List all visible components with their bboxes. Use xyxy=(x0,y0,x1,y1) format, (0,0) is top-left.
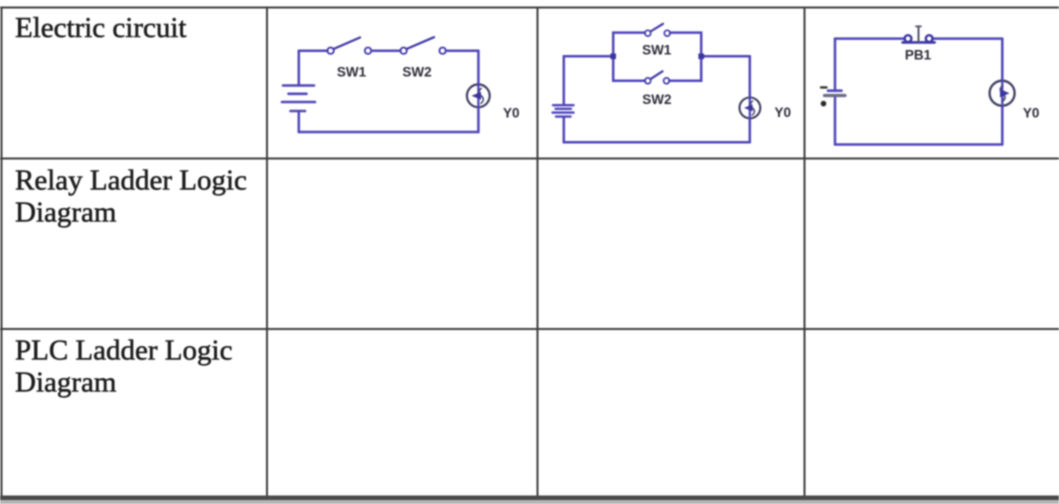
svg-text:Relay Ladder Logic: Relay Ladder Logic xyxy=(15,165,247,197)
wire right vertical c2 xyxy=(749,56,752,97)
svg-text:Y0: Y0 xyxy=(503,106,520,121)
svg-text:SW2: SW2 xyxy=(402,65,431,80)
svg-text:Y0: Y0 xyxy=(1023,105,1040,120)
wire bottom c1 xyxy=(299,131,479,134)
svg-text:SW1: SW1 xyxy=(642,43,672,58)
parallel branch left riser xyxy=(613,33,645,81)
wire SW2 to corner c1 xyxy=(446,49,479,52)
svg-text:Electric circuit: Electric circuit xyxy=(15,12,186,44)
wire top left c1 xyxy=(299,49,328,52)
wire main right c2 xyxy=(701,55,750,58)
wire battery to bottom c2 xyxy=(563,118,566,142)
pushbutton PB1 xyxy=(903,26,935,42)
svg-text:PB1: PB1 xyxy=(905,47,932,62)
wire right vertical c1 xyxy=(477,51,480,85)
lamp Y0 c2 xyxy=(740,98,761,119)
wire main left c2 xyxy=(564,55,613,58)
battery plus dot xyxy=(821,101,827,107)
wire top right c3 xyxy=(932,37,1002,40)
switch SW1 xyxy=(327,38,371,54)
svg-text:SW2: SW2 xyxy=(642,92,671,107)
parallel branch right riser xyxy=(669,33,701,81)
wire top left c3 xyxy=(835,37,905,40)
battery BT1 xyxy=(282,86,315,112)
battery minus mark xyxy=(821,86,827,88)
battery BT3 xyxy=(825,91,846,96)
node junction left xyxy=(610,54,616,60)
wire left vertical c3 xyxy=(834,39,837,90)
wire left vertical c1 xyxy=(298,51,301,85)
lamp Y0 c3 xyxy=(990,81,1015,106)
wire between SW1 SW2 xyxy=(371,49,400,52)
wire battery to bottom c1 xyxy=(298,113,301,133)
switch SW1 c2 xyxy=(645,24,670,36)
battery BT2 xyxy=(553,105,574,116)
wire right vertical c3 xyxy=(1001,39,1004,81)
wire left vertical c2 xyxy=(563,56,566,104)
svg-text:Diagram: Diagram xyxy=(15,197,117,229)
wire bottom c2 xyxy=(564,141,750,144)
svg-text:SW1: SW1 xyxy=(337,65,367,80)
svg-text:Y0: Y0 xyxy=(775,105,792,120)
lamp Y0 c1 xyxy=(467,84,490,107)
node junction right xyxy=(698,54,704,60)
switch SW2 c2 xyxy=(645,71,670,83)
svg-text:PLC Ladder Logic: PLC Ladder Logic xyxy=(15,335,232,367)
wire bottom c3 xyxy=(835,143,1002,146)
switch SW2 xyxy=(400,37,445,54)
svg-text:Diagram: Diagram xyxy=(15,367,117,399)
